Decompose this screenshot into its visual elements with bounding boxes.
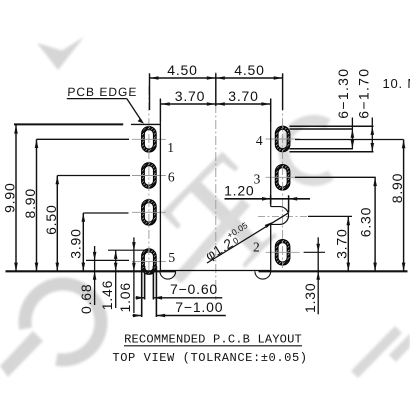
svg-text:3: 3 (254, 172, 261, 187)
svg-text:10. MAX: 10. MAX (383, 76, 410, 91)
svg-text:4.50: 4.50 (167, 62, 197, 78)
svg-text:8.90: 8.90 (22, 188, 38, 218)
svg-text:PCB EDGE: PCB EDGE (67, 85, 137, 99)
svg-text:4.50: 4.50 (234, 62, 264, 78)
svg-text:6: 6 (168, 169, 175, 184)
svg-text:1.46: 1.46 (99, 280, 115, 310)
svg-text:6.30: 6.30 (357, 207, 373, 237)
svg-text:7−0.60: 7−0.60 (170, 281, 218, 297)
svg-text:1.30: 1.30 (302, 283, 318, 313)
svg-text:RECOMMENDED P.C.B LAYOUT: RECOMMENDED P.C.B LAYOUT (124, 333, 302, 347)
svg-text:3.70: 3.70 (333, 228, 349, 258)
svg-text:2: 2 (253, 240, 260, 255)
svg-text:3.70: 3.70 (228, 88, 258, 104)
svg-text:5: 5 (168, 250, 175, 265)
svg-text:8.90: 8.90 (389, 173, 405, 203)
svg-text:3.90: 3.90 (68, 228, 84, 258)
svg-text:1: 1 (167, 140, 174, 155)
svg-text:0.68: 0.68 (78, 284, 94, 314)
svg-text:1.20: 1.20 (224, 182, 254, 198)
svg-text:7−1.00: 7−1.00 (175, 299, 223, 315)
svg-text:3.70: 3.70 (175, 88, 205, 104)
svg-text:4: 4 (256, 133, 263, 148)
svg-text:TOP VIEW (TOLRANCE:±0.05): TOP VIEW (TOLRANCE:±0.05) (112, 351, 307, 365)
svg-text:6−1.70: 6−1.70 (356, 68, 372, 119)
svg-text:6−1.30: 6−1.30 (335, 68, 351, 119)
svg-text:9.90: 9.90 (2, 182, 18, 212)
svg-text:1.06: 1.06 (117, 282, 133, 312)
svg-text:6.50: 6.50 (43, 204, 59, 234)
